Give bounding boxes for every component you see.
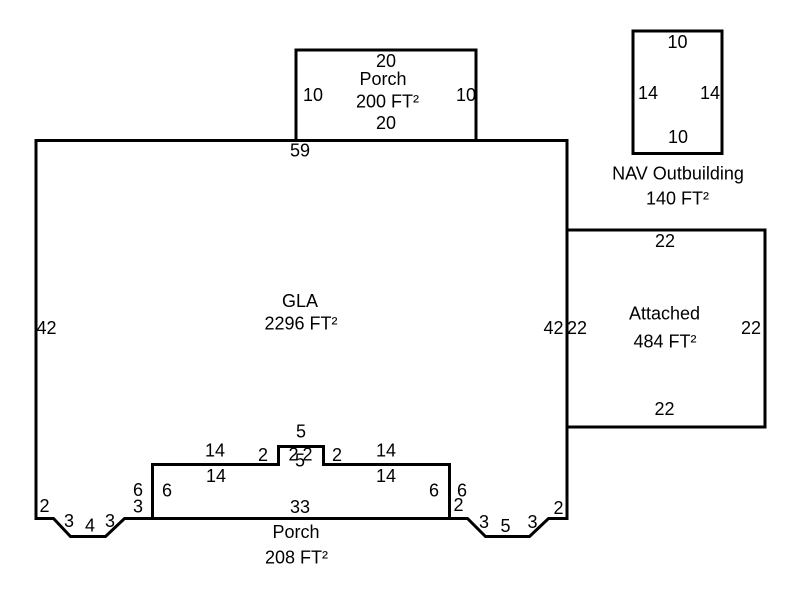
bottom porch notch outline with center bump — [153, 447, 450, 519]
svg-text:2: 2 — [258, 445, 268, 465]
svg-text:14: 14 — [638, 83, 658, 103]
svg-text:3: 3 — [105, 511, 115, 531]
top porch outline — [296, 50, 476, 141]
svg-text:4: 4 — [85, 516, 95, 536]
svg-text:2296 FT²: 2296 FT² — [264, 314, 337, 334]
svg-text:484 FT²: 484 FT² — [633, 332, 696, 352]
svg-text:3: 3 — [64, 511, 74, 531]
svg-text:20: 20 — [376, 113, 396, 133]
svg-text:Porch: Porch — [359, 69, 406, 89]
svg-text:2: 2 — [332, 445, 342, 465]
svg-text:33: 33 — [290, 497, 310, 517]
svg-text:5: 5 — [500, 516, 510, 536]
svg-text:GLA: GLA — [282, 291, 318, 311]
svg-text:22: 22 — [654, 399, 674, 419]
svg-text:3: 3 — [133, 497, 143, 517]
svg-text:20: 20 — [376, 51, 396, 71]
svg-text:5: 5 — [295, 451, 305, 471]
svg-text:14: 14 — [376, 441, 396, 461]
svg-text:208 FT²: 208 FT² — [265, 548, 328, 568]
svg-text:3: 3 — [527, 512, 537, 532]
svg-text:42: 42 — [543, 318, 563, 338]
svg-text:10: 10 — [668, 127, 688, 147]
svg-text:14: 14 — [700, 83, 720, 103]
svg-text:14: 14 — [376, 466, 396, 486]
svg-text:22: 22 — [567, 318, 587, 338]
svg-text:59: 59 — [290, 141, 310, 161]
svg-text:2: 2 — [39, 496, 49, 516]
GLA outline polygon with bottom bay windows — [36, 141, 567, 537]
svg-text:Porch: Porch — [272, 522, 319, 542]
svg-text:2: 2 — [453, 495, 463, 515]
NAV outbuilding rectangle — [633, 31, 722, 154]
svg-text:200 FT²: 200 FT² — [356, 92, 419, 112]
attached garage rectangle — [567, 230, 765, 427]
svg-text:3: 3 — [479, 512, 489, 532]
svg-text:14: 14 — [206, 466, 226, 486]
svg-text:6: 6 — [162, 481, 172, 501]
svg-text:22: 22 — [655, 231, 675, 251]
svg-text:2: 2 — [553, 498, 563, 518]
svg-text:22: 22 — [741, 318, 761, 338]
svg-text:Attached: Attached — [629, 304, 700, 324]
svg-text:10: 10 — [303, 85, 323, 105]
svg-text:6: 6 — [429, 481, 439, 501]
svg-text:5: 5 — [296, 422, 306, 442]
svg-text:140 FT²: 140 FT² — [646, 189, 709, 209]
svg-text:14: 14 — [205, 441, 225, 461]
svg-text:10: 10 — [456, 85, 476, 105]
svg-text:NAV Outbuilding: NAV Outbuilding — [612, 164, 744, 184]
svg-text:10: 10 — [667, 32, 687, 52]
svg-text:42: 42 — [36, 318, 56, 338]
